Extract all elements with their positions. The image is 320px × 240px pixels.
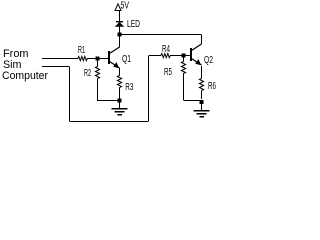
svg-text:Q1: Q1 (122, 54, 131, 65)
svg-text:Computer: Computer (2, 70, 48, 82)
svg-text:R4: R4 (162, 44, 170, 55)
svg-text:R3: R3 (125, 82, 133, 93)
svg-text:R5: R5 (164, 67, 172, 78)
svg-text:LED: LED (127, 19, 140, 30)
svg-text:R1: R1 (78, 45, 85, 56)
svg-text:5V: 5V (121, 1, 130, 12)
svg-text:R2: R2 (84, 68, 91, 79)
svg-text:R6: R6 (208, 81, 216, 92)
svg-text:Q2: Q2 (204, 55, 213, 66)
